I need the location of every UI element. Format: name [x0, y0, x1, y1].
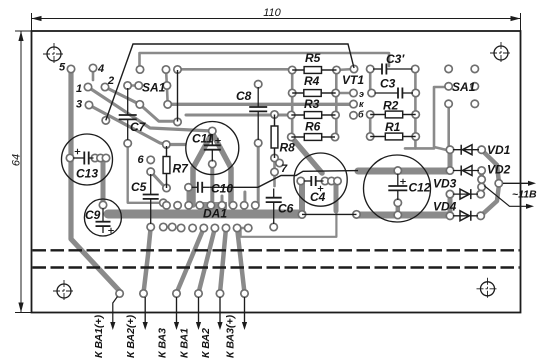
svg-text:VD2: VD2: [487, 163, 511, 177]
svg-text:C4: C4: [310, 190, 326, 204]
wire trace: diagonal pad 3 to R7 top: [89, 105, 185, 145]
wire trace: top band C12 to VD2: [358, 168, 450, 175]
capacitor C12: [388, 174, 407, 201]
svg-text:3: 3: [76, 99, 82, 111]
wire trace: k net long horizontal: [168, 103, 352, 106]
wire trace: DA1 pin to connector K BA2: [220, 228, 226, 293]
wire trace: R2/R1 left column: [369, 115, 372, 137]
wire trace: R5-R6 left column: [291, 69, 294, 137]
mounting hole BL: [53, 280, 75, 302]
wire trace: pad6 to R7 bottom diag: [151, 172, 166, 188]
wire trace: VD4 right diag to output: [481, 186, 499, 216]
wire trace: DA1 bottom row links: [163, 226, 172, 229]
svg-text:VD4: VD4: [433, 200, 457, 214]
wire trace: jumper pad to R5 left: [178, 68, 293, 71]
dashed line upper: [33, 249, 520, 251]
wire trace: horizontal y148: [405, 147, 434, 150]
svg-text:R6: R6: [305, 120, 321, 134]
capacitor C3: [375, 88, 414, 99]
wire trace: C11 bottom to DA1: [210, 166, 214, 210]
capacitor C11 body circle: [186, 122, 239, 175]
svg-text:C12: C12: [409, 181, 431, 195]
mounting hole BR: [477, 278, 499, 300]
resistor R2: [370, 111, 416, 118]
resistor R7: [163, 146, 170, 188]
resistor R1: [370, 133, 416, 140]
svg-text:C5: C5: [131, 180, 147, 194]
wire trace: row3 pad to jumper pad: [140, 104, 178, 121]
wire trace: C10 left pad down: [187, 188, 191, 205]
resistor R3: [291, 112, 335, 119]
svg-text:К ВА1: К ВА1: [179, 328, 191, 358]
wire trace: R6 left diag to C4: [291, 137, 322, 173]
wire trace: C12 bottom stub: [396, 203, 401, 215]
svg-text:R7: R7: [173, 162, 190, 176]
svg-text:VT1: VT1: [342, 73, 364, 87]
wire band end to C12 area: [302, 213, 357, 215]
wire trace: diagonal pads 1 to C11 top: [88, 87, 212, 131]
wire trace: horizontal y115 to R3: [186, 114, 291, 117]
wire trace: SA1 right to VD1: [434, 87, 449, 151]
svg-text:SA1: SA1: [142, 81, 166, 95]
wire trace: C13 right to C9: [101, 158, 106, 205]
jumper wire to VT1: [106, 44, 354, 120]
resistor R8: [271, 115, 278, 159]
wire trace: C4 left pad down to ground band: [299, 183, 305, 213]
capacitor C3': [373, 64, 413, 75]
wire trace: C4 cluster down to loop: [334, 183, 339, 211]
dashed line lower: [33, 266, 520, 268]
jumper wire vertical SA1: [177, 70, 179, 122]
wire trace: R8 pad links: [275, 158, 280, 163]
connector arrow К ВА2: [219, 297, 221, 324]
wire trace: stubs above DA1: [243, 192, 246, 205]
pads (plated holes): [66, 64, 502, 297]
svg-text:~11В: ~11В: [512, 189, 537, 201]
wire trace: dark block above DA1: [198, 202, 227, 211]
wire trace: diagonal pad 2 to SA1 row: [105, 87, 140, 104]
wire trace: C11 left leg: [193, 133, 212, 205]
resistor R6: [291, 134, 335, 141]
wire trace: C8 bottom down to DA1: [257, 143, 260, 205]
connector arrow K BA1(+): [113, 297, 118, 325]
wire trace: ground band along DA1: [108, 210, 302, 219]
output arrow upper: [503, 182, 530, 184]
wire C10 to C6 to C4: [210, 171, 358, 188]
connector arrow К ВА2(+): [144, 297, 146, 324]
svg-text:6: 6: [138, 154, 145, 166]
svg-text:1: 1: [76, 83, 82, 95]
connector arrow К ВА3(+): [244, 297, 246, 324]
wire trace: DA1 pin to connector K BA3(+): [237, 228, 244, 293]
wire trace: C7 bottom loop around C5: [128, 143, 164, 203]
capacitor C8: [249, 87, 267, 140]
wire trace: C3/R2/R1 right column: [414, 69, 417, 148]
wire trace: bottom band to VD4: [358, 212, 451, 219]
wire trace: pad5 to connector K BA1(+): [71, 69, 120, 291]
svg-text:R3: R3: [304, 97, 320, 111]
diode VD2: [453, 166, 479, 176]
wire trace: SA1 left column links: [166, 70, 168, 105]
diode VD1: [453, 145, 479, 155]
wire trace: DA1 pin to connector K BA1: [199, 228, 215, 293]
dimension 64 (left): [15, 31, 32, 313]
svg-text:C9: C9: [85, 208, 101, 222]
mounting hole TR: [490, 42, 512, 64]
svg-text:R1: R1: [385, 120, 401, 134]
diode VD3: [453, 189, 478, 199]
svg-text:64: 64: [11, 154, 23, 166]
capacitor C7: [119, 88, 137, 140]
svg-text:C8: C8: [236, 89, 252, 103]
svg-text:C11: C11: [192, 132, 213, 146]
wire trace: VD1-VD2 left vertical: [448, 150, 453, 171]
connector arrow К ВА3: [176, 297, 178, 324]
wire trace: pad 4 stub: [92, 68, 95, 80]
capacitor C4: [304, 176, 324, 186]
svg-text:R5: R5: [305, 51, 321, 65]
svg-text:э: э: [359, 89, 364, 99]
svg-text:2: 2: [107, 75, 114, 87]
svg-text:SA1: SA1: [452, 80, 476, 94]
svg-text:C3′: C3′: [386, 52, 405, 66]
board outline: [32, 31, 521, 313]
dimension 110 (top): [32, 13, 521, 31]
svg-text:C10: C10: [211, 182, 233, 196]
capacitor C10: [192, 182, 210, 193]
capacitor C9 body circle: [84, 199, 121, 236]
svg-text:C6: C6: [278, 202, 294, 216]
svg-text:5: 5: [59, 62, 66, 74]
svg-text:К ВА3(+): К ВА3(+): [225, 314, 237, 358]
svg-text:К ВА2(+): К ВА2(+): [125, 314, 137, 358]
wire trace: C11 right leg: [212, 133, 231, 205]
svg-text:к: к: [359, 99, 364, 109]
output arrow lower: [484, 186, 528, 207]
wire trace: loop below DA1: [241, 210, 337, 237]
svg-text:К ВА1(+): К ВА1(+): [93, 314, 105, 358]
wire trace: R4 right to emitter pad: [339, 92, 352, 95]
capacitor C12 body circle: [364, 155, 431, 222]
capacitor C13 body circle: [62, 134, 113, 185]
svg-text:К ВА2: К ВА2: [200, 328, 212, 358]
svg-text:R8: R8: [280, 141, 296, 155]
svg-text:R4: R4: [304, 74, 320, 88]
resistor R5: [292, 67, 336, 74]
wire trace: long top horizontal: [140, 53, 390, 66]
connector arrow К ВА1: [198, 297, 200, 324]
capacitor C5: [143, 174, 159, 224]
svg-text:VD1: VD1: [487, 143, 511, 157]
svg-text:C7: C7: [130, 120, 147, 134]
wire trace: VD right cluster vertical: [479, 171, 484, 195]
capacitor C4 body circle: [294, 153, 347, 206]
svg-text:R2: R2: [383, 99, 399, 113]
svg-text:DA1: DA1: [203, 207, 227, 221]
wire trace: C5 bottom to connector K BA2(+): [144, 229, 151, 293]
svg-text:7: 7: [281, 163, 288, 175]
mounting hole TL: [43, 43, 65, 65]
svg-text:C13: C13: [76, 167, 98, 181]
diode VD4: [453, 211, 478, 221]
capacitor C9: [96, 208, 111, 233]
capacitor C6: [266, 189, 282, 225]
svg-text:б: б: [358, 110, 364, 120]
svg-text:4: 4: [97, 63, 104, 75]
svg-text:К ВА3: К ВА3: [157, 328, 169, 358]
wire trace: R5-R6 right column: [335, 69, 338, 137]
wire trace: VD3-VD4 left vertical: [448, 194, 453, 216]
svg-text:C3: C3: [380, 77, 396, 91]
capacitor C11: [204, 134, 221, 162]
capacitor C13: [73, 152, 94, 165]
svg-text:VD3: VD3: [433, 177, 457, 191]
resistor R4: [292, 90, 336, 97]
wire trace: R5 right to VT1 pad: [337, 69, 355, 70]
wire trace: DA1 pin to connector K BA3: [177, 228, 204, 293]
svg-text:110: 110: [263, 7, 281, 19]
wire trace: VD1 right diag to output: [482, 150, 499, 181]
